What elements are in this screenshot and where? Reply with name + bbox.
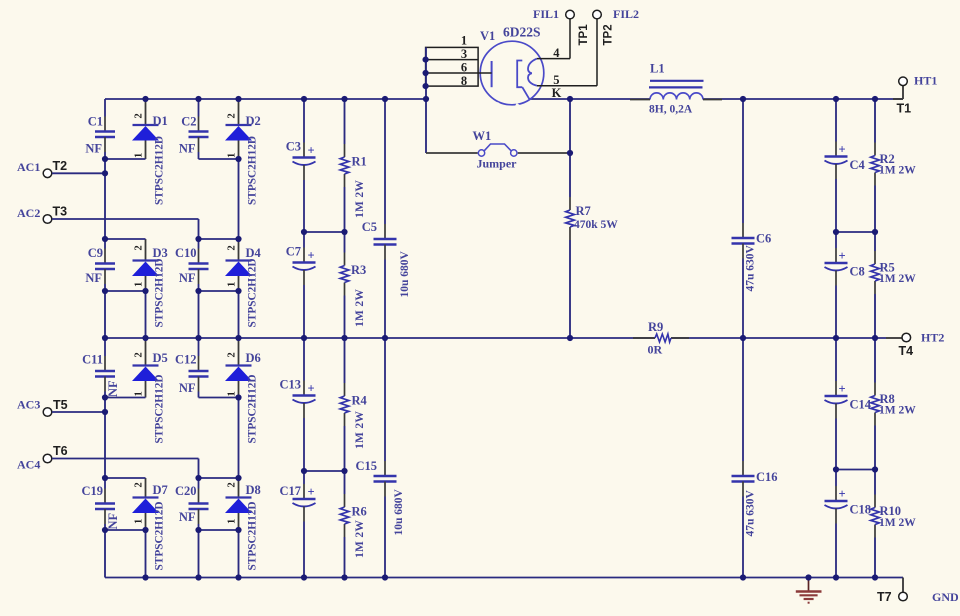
resistor R1 (1M 2W)	[340, 144, 367, 218]
svg-text:1M 2W: 1M 2W	[354, 180, 366, 218]
wire to mid rail	[145, 291, 147, 338]
wire to bottom rail	[198, 530, 200, 578]
junction	[341, 574, 347, 580]
wire R6 to bottom rail	[344, 537, 346, 578]
wire mid rail to R4	[344, 338, 346, 383]
resistor R2 (1M 2W)	[871, 143, 917, 186]
junction	[872, 466, 878, 472]
svg-text:HT1: HT1	[914, 74, 937, 88]
junction	[341, 335, 347, 341]
svg-text:AC2: AC2	[17, 206, 40, 220]
wire GND riser	[902, 578, 904, 593]
svg-text:3: 3	[461, 47, 467, 61]
svg-text:8H, 0,2A: 8H, 0,2A	[649, 104, 693, 116]
svg-text:1M 2W: 1M 2W	[354, 520, 366, 558]
terminal circle GND	[899, 592, 908, 601]
svg-text:NF: NF	[85, 271, 102, 285]
resistor R5 (1M 2W)	[871, 251, 917, 294]
junction	[142, 574, 148, 580]
svg-text:STPSC2H12D: STPSC2H12D	[154, 136, 166, 205]
wire row4 bottom bus C19-D7	[105, 529, 146, 531]
svg-text:C7: C7	[286, 245, 301, 259]
wire junction bus C14/C18-R8/R10	[836, 469, 875, 471]
junction	[102, 156, 108, 162]
wire AC1 column	[104, 159, 106, 239]
svg-text:C16: C16	[756, 470, 778, 484]
svg-text:T6: T6	[53, 444, 68, 458]
svg-text:6: 6	[461, 61, 467, 75]
svg-text:STPSC2H12D: STPSC2H12D	[247, 374, 259, 443]
svg-text:1: 1	[227, 153, 238, 158]
junction	[833, 335, 839, 341]
junction	[341, 96, 347, 102]
capacitor C5	[362, 99, 411, 338]
wire rail to R7 (through W1 node)	[569, 99, 571, 197]
svg-text:C2: C2	[181, 115, 196, 129]
wire AC2 down	[198, 219, 200, 239]
svg-text:1M 2W: 1M 2W	[879, 517, 916, 529]
svg-text:T1: T1	[897, 102, 912, 116]
svg-text:1: 1	[227, 519, 238, 524]
junction	[423, 57, 429, 63]
wire junction bus C3/C7-R1/R3	[304, 231, 345, 233]
capacitor C1 (NF)	[85, 99, 115, 159]
wire to mid rail	[104, 291, 106, 338]
svg-text:D6: D6	[246, 351, 261, 365]
svg-text:C5: C5	[362, 220, 377, 234]
svg-text:D7: D7	[153, 483, 168, 497]
wire to bottom rail	[104, 530, 106, 578]
svg-text:1: 1	[227, 282, 238, 287]
svg-text:FIL1: FIL1	[533, 7, 559, 21]
svg-text:T3: T3	[53, 205, 68, 219]
svg-text:Jumper: Jumper	[477, 157, 518, 171]
svg-text:AC4: AC4	[17, 458, 40, 472]
svg-text:2: 2	[227, 113, 238, 118]
junction	[195, 475, 201, 481]
terminal circle HT2	[902, 333, 911, 342]
svg-text:1M 2W: 1M 2W	[354, 411, 366, 449]
svg-text:GND: GND	[932, 590, 959, 604]
capacitor C13 (polarized)	[279, 338, 315, 471]
junction	[872, 229, 878, 235]
svg-text:2: 2	[227, 245, 238, 250]
svg-text:C9: C9	[88, 246, 103, 260]
svg-text:10u 680V: 10u 680V	[399, 250, 411, 297]
wire junction to R5	[874, 232, 876, 251]
junction	[102, 475, 108, 481]
svg-text:AC1: AC1	[17, 160, 40, 174]
junction	[740, 96, 746, 102]
junction	[102, 394, 108, 400]
junction	[195, 96, 201, 102]
svg-text:K: K	[552, 86, 562, 100]
wire R5 to mid rail	[874, 294, 876, 338]
wire mid rail right	[671, 337, 886, 339]
wire junction to R6	[344, 471, 346, 494]
svg-text:STPSC2H12D: STPSC2H12D	[154, 501, 166, 570]
svg-text:NF: NF	[179, 142, 196, 156]
wire R7 to mid rail	[569, 240, 571, 338]
capacitor C7 (polarized)	[286, 232, 316, 338]
svg-text:1: 1	[134, 153, 145, 158]
wire R10 to bottom rail	[874, 538, 876, 578]
tube V1 heater filament	[528, 59, 537, 86]
wire AC1 to column	[52, 172, 105, 174]
junction	[341, 229, 347, 235]
svg-text:C19: C19	[81, 484, 103, 498]
terminal circle T6	[43, 454, 52, 463]
wire FIL1 riser	[569, 19, 571, 59]
junction	[235, 335, 241, 341]
svg-text:1M 2W: 1M 2W	[354, 289, 366, 327]
diode D4 (STPSC2H12D)	[225, 239, 262, 328]
resistor R3 (1M 2W)	[340, 253, 366, 328]
junction	[102, 236, 108, 242]
svg-text:D2: D2	[246, 114, 261, 128]
junction	[102, 409, 108, 415]
svg-text:R4: R4	[352, 394, 368, 408]
capacitor C20 (NF)	[175, 478, 209, 530]
wire row2 bus C9-D3	[105, 238, 146, 240]
junction	[235, 527, 241, 533]
svg-text:C13: C13	[279, 378, 301, 392]
diode D5 (STPSC2H12D)	[132, 338, 168, 444]
svg-text:C15: C15	[355, 459, 377, 473]
svg-text:HT2: HT2	[921, 331, 944, 345]
wire rail to R2	[874, 99, 876, 143]
wire R2 to junction	[874, 186, 876, 233]
junction	[567, 96, 573, 102]
wire HT1 riser	[902, 86, 904, 99]
wire tube box column down to W1	[425, 47, 427, 153]
svg-text:D1: D1	[153, 114, 168, 128]
svg-text:C14: C14	[850, 398, 872, 412]
junction	[301, 96, 307, 102]
tube cathode lead K	[522, 87, 529, 99]
wire row4 bus C20-D8	[199, 477, 239, 479]
resistor R7 (470k 5W)	[566, 197, 619, 240]
wire R3 to mid rail	[344, 296, 346, 339]
junction	[142, 96, 148, 102]
svg-text:STPSC2H12D: STPSC2H12D	[247, 501, 259, 570]
wire row2 bottom bus C10-D4	[199, 290, 239, 292]
junction	[301, 229, 307, 235]
junction	[833, 229, 839, 235]
junction	[567, 150, 573, 156]
wire AC4 to column	[52, 458, 199, 460]
junction	[423, 70, 429, 76]
svg-text:STPSC2H12D: STPSC2H12D	[247, 258, 259, 327]
capacitor C3 (polarized)	[286, 99, 316, 232]
svg-text:1: 1	[134, 519, 145, 524]
junction	[195, 288, 201, 294]
svg-text:NF: NF	[106, 512, 120, 529]
terminal circle TP1	[566, 10, 575, 19]
wire pin4 to FIL1	[537, 58, 570, 60]
wire bottom rail (GND net)	[105, 577, 903, 579]
wire top rail (L1 to HT1)	[703, 98, 903, 100]
wire junction bus C4/C8-R2/R5	[836, 231, 875, 233]
wire W1 right	[518, 152, 570, 154]
svg-text:C3: C3	[286, 140, 301, 154]
wire W1 left	[426, 152, 478, 154]
capacitor C18 (polarized)	[825, 470, 872, 578]
svg-text:2: 2	[227, 482, 238, 487]
wire row2 bus C10-D4	[199, 238, 239, 240]
wire R1 to junction	[344, 187, 346, 232]
svg-text:+: +	[838, 143, 845, 157]
terminal circle T2	[43, 169, 52, 178]
junction	[301, 335, 307, 341]
wire stub HT1	[893, 98, 903, 100]
wire AC3 to column	[52, 411, 105, 413]
junction	[382, 96, 388, 102]
junction	[235, 574, 241, 580]
junction	[235, 475, 241, 481]
svg-text:D3: D3	[153, 246, 168, 260]
svg-text:2: 2	[227, 352, 238, 357]
svg-text:C4: C4	[850, 158, 866, 172]
tube pin box (pins 1/3/6/8)	[426, 47, 479, 86]
svg-text:STPSC2H12D: STPSC2H12D	[247, 136, 259, 205]
svg-text:1M 2W: 1M 2W	[879, 273, 916, 285]
capacitor C9 (NF)	[85, 239, 115, 291]
ground symbol	[796, 578, 822, 603]
svg-text:R1: R1	[352, 155, 367, 169]
junction	[382, 335, 388, 341]
svg-text:V1: V1	[480, 29, 495, 43]
wire junction to R3	[344, 232, 346, 253]
svg-text:R10: R10	[880, 504, 902, 518]
svg-text:W1: W1	[473, 129, 492, 143]
wire AC3 column	[104, 398, 106, 479]
junction	[195, 527, 201, 533]
junction	[382, 574, 388, 580]
svg-text:TP2: TP2	[603, 24, 615, 45]
op amp? no: tube V1 6D22S envelope	[480, 41, 544, 105]
junction	[301, 574, 307, 580]
junction	[740, 574, 746, 580]
junction	[833, 96, 839, 102]
wire to mid rail	[238, 291, 240, 338]
junction	[235, 288, 241, 294]
junction	[235, 96, 241, 102]
svg-text:1M 2W: 1M 2W	[879, 405, 916, 417]
wire junction to R10	[874, 470, 876, 495]
diode D1 (STPSC2H12D)	[132, 99, 168, 205]
svg-text:NF: NF	[179, 510, 196, 524]
wire FIL2 riser	[596, 19, 598, 86]
junction	[423, 83, 429, 89]
wire pin6 to plate	[478, 72, 492, 74]
svg-text:8: 8	[461, 74, 467, 88]
svg-text:R7: R7	[576, 204, 591, 218]
svg-text:470k 5W: 470k 5W	[574, 219, 618, 231]
junction	[195, 236, 201, 242]
svg-text:C18: C18	[850, 503, 872, 517]
diode D8 (STPSC2H12D)	[225, 478, 261, 571]
svg-text:+: +	[307, 485, 314, 499]
svg-text:L1: L1	[650, 62, 665, 76]
capacitor C8 (polarized)	[825, 232, 865, 338]
wire D6 to row4	[238, 398, 240, 479]
diode D7 (STPSC2H12D)	[132, 478, 168, 571]
wire row4 bus C19-D7	[105, 477, 146, 479]
junction	[567, 335, 573, 341]
wire mid rail left (HT2 net)	[105, 337, 655, 339]
svg-text:C20: C20	[175, 484, 197, 498]
junction	[142, 288, 148, 294]
junction	[833, 466, 839, 472]
capacitor C14 (polarized)	[825, 338, 872, 470]
svg-text:2: 2	[134, 245, 145, 250]
wire R4 to junction	[344, 426, 346, 471]
junction	[301, 468, 307, 474]
capacitor C15	[355, 338, 405, 578]
tube V1 anode plate	[491, 61, 493, 87]
svg-text:0R: 0R	[648, 343, 663, 357]
svg-text:+: +	[307, 249, 314, 263]
capacitor C17 (polarized)	[279, 471, 315, 578]
svg-text:NF: NF	[106, 380, 120, 397]
wire top rail (cathode K to L1)	[530, 98, 651, 100]
svg-text:+: +	[307, 382, 314, 396]
junction	[341, 468, 347, 474]
junction	[102, 288, 108, 294]
terminal circle TP2	[593, 10, 602, 19]
junction	[142, 527, 148, 533]
wire pin5 to FIL2	[537, 85, 597, 87]
junction	[102, 335, 108, 341]
wire row1 bus C2-D2	[199, 158, 239, 160]
wire junction bus C13/C17-R4/R6	[304, 470, 345, 472]
junction	[872, 96, 878, 102]
junction	[423, 96, 429, 102]
wire to mid rail	[198, 291, 200, 338]
svg-text:AC3: AC3	[17, 398, 40, 412]
svg-text:D8: D8	[246, 483, 261, 497]
svg-text:C6: C6	[756, 232, 771, 246]
svg-text:+: +	[838, 249, 845, 263]
svg-text:R3: R3	[351, 263, 366, 277]
capacitor C19 (NF)	[81, 478, 120, 530]
svg-text:T5: T5	[53, 398, 68, 412]
wire to bottom rail	[145, 530, 147, 578]
svg-text:1: 1	[134, 282, 145, 287]
svg-text:C10: C10	[175, 246, 197, 260]
jumper W1	[426, 129, 570, 171]
svg-text:STPSC2H12D: STPSC2H12D	[154, 258, 166, 327]
svg-text:FIL2: FIL2	[613, 7, 639, 21]
diode D2 (STPSC2H12D)	[225, 99, 261, 205]
svg-text:C12: C12	[175, 353, 197, 367]
wire row4 bottom bus C20-D8	[199, 529, 239, 531]
junction	[102, 170, 108, 176]
svg-text:T4: T4	[899, 344, 914, 358]
capacitor C12 (NF)	[175, 338, 209, 398]
svg-text:2: 2	[134, 352, 145, 357]
junction	[235, 394, 241, 400]
resistor R4 (1M 2W)	[340, 383, 367, 449]
capacitor C2 (NF)	[179, 99, 209, 159]
wire to bottom rail	[238, 530, 240, 578]
svg-text:1M 2W: 1M 2W	[879, 165, 916, 177]
svg-text:47u 630V: 47u 630V	[745, 244, 757, 291]
wire rail to R1	[344, 99, 346, 144]
diode D6 (STPSC2H12D)	[225, 338, 261, 444]
wire row1 bus C1-D1	[105, 158, 146, 160]
wire row3 bus C11-D5	[105, 397, 146, 399]
svg-text:NF: NF	[85, 142, 102, 156]
junction	[195, 335, 201, 341]
junction	[872, 574, 878, 580]
svg-text:+: +	[838, 487, 845, 501]
wire AC2 to column	[52, 218, 199, 220]
wire row3 bus C12-D6	[199, 397, 239, 399]
junction	[805, 574, 811, 580]
capacitor C11 (NF)	[82, 338, 120, 398]
svg-text:1: 1	[134, 391, 145, 396]
junction	[235, 156, 241, 162]
resistor R9 (0R)	[633, 320, 689, 357]
svg-text:2: 2	[134, 482, 145, 487]
capacitor C6	[732, 99, 772, 338]
svg-text:NF: NF	[179, 271, 196, 285]
terminal circle HT1	[899, 77, 908, 86]
capacitor C16	[732, 338, 778, 578]
junction	[102, 527, 108, 533]
wire R8 to junction	[874, 426, 876, 470]
resistor R6 (1M 2W)	[340, 494, 367, 558]
wire top rail left	[105, 98, 426, 100]
svg-text:2: 2	[134, 113, 145, 118]
tube V1 cathode bracket	[517, 61, 522, 88]
svg-text:+: +	[307, 144, 314, 158]
svg-text:R6: R6	[352, 505, 367, 519]
junction	[142, 335, 148, 341]
svg-text:D4: D4	[246, 246, 262, 260]
resistor R8 (1M 2W)	[871, 383, 917, 426]
svg-text:+: +	[838, 382, 845, 396]
svg-text:T2: T2	[53, 159, 68, 173]
terminal circle T3	[43, 215, 52, 224]
svg-text:C1: C1	[88, 115, 103, 129]
resistor R10 (1M 2W)	[871, 495, 917, 538]
svg-text:10u 680V: 10u 680V	[393, 488, 405, 535]
svg-text:T7: T7	[877, 590, 892, 604]
junction	[740, 335, 746, 341]
capacitor C10 (NF)	[175, 239, 209, 291]
inductor L1 (8H, 0,2A)	[630, 62, 722, 116]
svg-text:TP1: TP1	[578, 24, 590, 46]
capacitor C4 (polarized)	[825, 99, 866, 232]
wire AC4 down	[198, 459, 200, 479]
wire stub to HT2 terminal	[886, 337, 902, 339]
svg-text:STPSC2H12D: STPSC2H12D	[154, 374, 166, 443]
junction	[195, 574, 201, 580]
svg-text:C11: C11	[82, 353, 103, 367]
svg-text:R9: R9	[648, 320, 663, 334]
terminal circle T5	[43, 408, 52, 417]
wire mid rail to R8	[874, 338, 876, 383]
svg-text:C17: C17	[279, 484, 301, 498]
wire row2 bottom bus C9-D3	[105, 290, 146, 292]
svg-text:C8: C8	[850, 265, 865, 279]
junction	[235, 236, 241, 242]
svg-text:D5: D5	[153, 351, 168, 365]
svg-text:1: 1	[461, 34, 467, 48]
